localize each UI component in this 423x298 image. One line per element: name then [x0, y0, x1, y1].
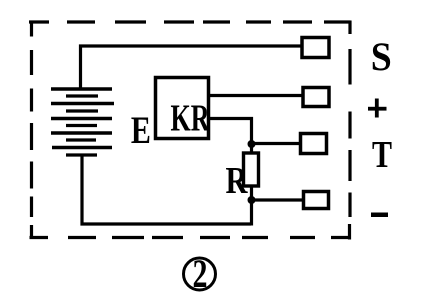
- svg-text:R: R: [226, 160, 249, 202]
- wire KR lower output to node A: [209, 119, 252, 145]
- relay box KR: [156, 78, 209, 139]
- battery E: [51, 89, 114, 155]
- wire battery top to S row: [81, 46, 303, 89]
- svg-text:S: S: [371, 34, 392, 79]
- wire KR to + terminal: [209, 94, 303, 97]
- svg-text:KR: KR: [171, 98, 211, 140]
- svg-text:2: 2: [193, 251, 208, 296]
- terminal T square: [301, 134, 327, 154]
- figure number circled 2: [184, 258, 216, 290]
- wire node B to minus terminal: [252, 198, 304, 201]
- wire node A to T terminal: [252, 142, 302, 145]
- label minus: [371, 213, 388, 218]
- label +: [368, 107, 387, 111]
- resistor R: [244, 153, 259, 186]
- node B junction dot: [248, 196, 256, 204]
- wire node B down to bottom rail: [250, 200, 253, 226]
- terminal - square: [304, 192, 329, 209]
- wire node A to resistor top: [250, 144, 253, 153]
- svg-text:T: T: [372, 134, 392, 176]
- svg-text:E: E: [131, 109, 151, 152]
- dashed enclosure border: [29, 21, 351, 240]
- terminal S square: [302, 38, 329, 58]
- terminal + square: [303, 88, 329, 107]
- wire battery bottom down and along bottom: [82, 155, 251, 224]
- wire resistor bottom to node B: [250, 186, 253, 200]
- node A junction dot: [248, 140, 256, 148]
